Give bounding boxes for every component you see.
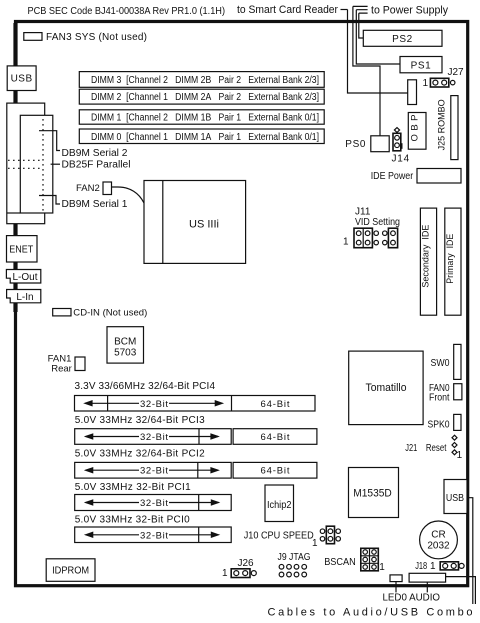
M1535D chip [349, 468, 399, 518]
DIMM 1 slot [79, 110, 324, 124]
svg-text:5.0V 33MHz 32-Bit PCI1: 5.0V 33MHz 32-Bit PCI1 [75, 482, 191, 493]
dashed vertical inside stack [42, 119, 44, 211]
rear connector stack inner [20, 115, 53, 213]
wire tick smart card [341, 9, 348, 11]
svg-text:Reset: Reset [426, 443, 447, 454]
svg-text:to Power Supply: to Power Supply [371, 5, 448, 17]
svg-text:5703: 5703 [114, 348, 137, 359]
PS0 connector [371, 136, 389, 152]
US IIIi processor [144, 181, 246, 264]
bracket DB9M Serial 2 [39, 131, 60, 151]
dash DB25F Parallel [51, 163, 60, 165]
svg-text:CR: CR [431, 530, 445, 541]
svg-text:J10 CPU SPEED: J10 CPU SPEED [244, 531, 314, 542]
svg-text:32-Bit: 32-Bit [140, 498, 168, 509]
Tomatillo chip [349, 351, 423, 425]
wire to PS1 [356, 10, 400, 64]
svg-text:L-Out: L-Out [12, 272, 37, 283]
svg-text:1: 1 [430, 561, 436, 572]
svg-text:5.0V 33MHz 32/64-Bit PCI2: 5.0V 33MHz 32/64-Bit PCI2 [75, 449, 205, 460]
svg-text:1: 1 [457, 450, 463, 461]
LED0 [390, 575, 402, 582]
svg-text:DB9M Serial 2: DB9M Serial 2 [62, 148, 128, 159]
L-In jack [7, 290, 41, 303]
svg-text:J14: J14 [392, 154, 411, 165]
DIMM 2 slot [79, 89, 324, 104]
svg-text:SW0: SW0 [431, 358, 450, 369]
Ichip2 chip [265, 485, 294, 522]
svg-text:PS1: PS1 [411, 61, 432, 72]
svg-text:IDPROM: IDPROM [52, 566, 89, 577]
svg-text:Front: Front [429, 393, 450, 404]
svg-text:to Smart Card Reader: to Smart Card Reader [237, 4, 338, 16]
svg-text:LED0 AUDIO: LED0 AUDIO [383, 593, 441, 604]
svg-text:CD-IN (Not used): CD-IN (Not used) [73, 308, 147, 319]
AUDIO connector [409, 573, 446, 582]
svg-text:1: 1 [222, 568, 228, 579]
wire to PS2 [359, 13, 364, 38]
svg-text:VID Setting: VID Setting [355, 217, 400, 228]
wire to PS0 [353, 6, 380, 135]
svg-text:32-Bit: 32-Bit [140, 466, 168, 477]
svg-text:64-Bit: 64-Bit [261, 432, 290, 443]
Secondary IDE connector [420, 208, 436, 315]
smart card connector [408, 80, 417, 105]
svg-text:DIMM 2 [Channel 1 DIMM 2A: DIMM 2 [Channel 1 DIMM 2A Pair 2 Externa… [91, 92, 319, 103]
BCM5703 chip [107, 327, 144, 363]
svg-text:BSCAN: BSCAN [324, 557, 356, 568]
OBP chip [408, 113, 426, 150]
svg-text:32-Bit: 32-Bit [140, 530, 168, 541]
ENET connector [7, 236, 38, 262]
svg-text:BCM: BCM [114, 337, 136, 348]
svg-text:J21: J21 [405, 443, 417, 454]
svg-text:J26: J26 [238, 558, 255, 569]
FAN3 connector [24, 33, 42, 41]
svg-text:Tomatillo: Tomatillo [366, 382, 407, 394]
svg-text:M1535D: M1535D [353, 488, 392, 500]
svg-text:5.0V 33MHz 32/64-Bit PCI3: 5.0V 33MHz 32/64-Bit PCI3 [75, 415, 205, 426]
svg-text:32-Bit: 32-Bit [140, 399, 168, 410]
svg-text:USB: USB [11, 74, 33, 85]
wire backpanel chain segments [13, 23, 17, 312]
CR2032 battery [420, 521, 458, 559]
DIMM 0 slot [79, 129, 324, 144]
USB front connector [444, 480, 467, 514]
wire FAN2 curve [112, 187, 145, 203]
svg-text:SPK0: SPK0 [428, 420, 450, 431]
rear connector stack outer [7, 103, 45, 224]
svg-text:PS0: PS0 [345, 139, 366, 150]
Primary IDE connector [445, 208, 461, 315]
svg-text:Secondary IDE: Secondary IDE [421, 225, 432, 288]
J25 ROMBO connector [451, 96, 458, 160]
svg-text:2032: 2032 [427, 541, 450, 552]
svg-text:OBP: OBP [409, 114, 420, 141]
svg-text:64-Bit: 64-Bit [261, 399, 290, 410]
svg-text:J18: J18 [415, 561, 427, 572]
cable line USB [467, 498, 473, 604]
svg-text:DIMM 0 [Channel 1 DIMM 1A: DIMM 0 [Channel 1 DIMM 1A Pair 1 Externa… [91, 132, 319, 143]
svg-text:1: 1 [379, 562, 385, 573]
svg-text:DIMM 3 [Channel 2 DIMM 2B: DIMM 3 [Channel 2 DIMM 2B Pair 2 Externa… [91, 75, 319, 86]
svg-text:5.0V 33MHz 32-Bit PCI0: 5.0V 33MHz 32-Bit PCI0 [75, 515, 190, 526]
CD-IN connector [53, 309, 71, 316]
svg-text:J25 ROMBO: J25 ROMBO [437, 99, 448, 150]
svg-text:3.3V 33/66MHz 32/64-Bit PCI4: 3.3V 33/66MHz 32/64-Bit PCI4 [75, 381, 216, 392]
svg-text:J9 JTAG: J9 JTAG [278, 552, 311, 563]
DIMM 3 slot [79, 72, 324, 88]
svg-text:Primary IDE: Primary IDE [445, 234, 456, 284]
svg-text:1: 1 [312, 538, 318, 549]
svg-text:DIMM 1 [Channel 2 DIMM 1B: DIMM 1 [Channel 2 DIMM 1B Pair 1 Externa… [91, 113, 319, 124]
bracket DB9M Serial 1 [39, 196, 60, 205]
svg-text:64-Bit: 64-Bit [261, 466, 290, 477]
svg-text:USB: USB [446, 493, 464, 504]
wire bracket power supply [353, 6, 368, 13]
IDPROM chip [46, 559, 95, 582]
wire smart card reader [348, 10, 408, 94]
PS1 connector [400, 57, 442, 73]
dashed horizontals inside stack [8, 160, 43, 168]
svg-text:1: 1 [423, 78, 429, 89]
svg-text:1: 1 [343, 237, 349, 248]
svg-text:DB25F Parallel: DB25F Parallel [62, 160, 131, 171]
svg-text:DB9M Serial 1: DB9M Serial 1 [62, 199, 128, 210]
svg-text:PCB SEC Code BJ41-00038A Rev P: PCB SEC Code BJ41-00038A Rev PR1.0 (1.1H… [28, 6, 226, 17]
svg-text:J27: J27 [448, 67, 465, 78]
svg-text:L-In: L-In [16, 292, 33, 303]
L-Out jack [6, 270, 40, 284]
svg-text:ENET: ENET [9, 245, 33, 256]
svg-text:32-Bit: 32-Bit [140, 432, 168, 443]
svg-text:IDE Power: IDE Power [371, 171, 414, 182]
svg-text:FAN3 SYS (Not used): FAN3 SYS (Not used) [46, 32, 147, 43]
USB rear connector [7, 66, 36, 91]
svg-text:US IIIi: US IIIi [189, 219, 219, 231]
J14 header [394, 128, 399, 133]
svg-text:Ichip2: Ichip2 [267, 500, 292, 511]
svg-text:FAN2: FAN2 [76, 183, 100, 194]
svg-text:Rear: Rear [51, 364, 72, 375]
cable line AUDIO [446, 577, 476, 604]
PS2 connector [363, 30, 442, 46]
svg-text:PS2: PS2 [392, 34, 413, 45]
